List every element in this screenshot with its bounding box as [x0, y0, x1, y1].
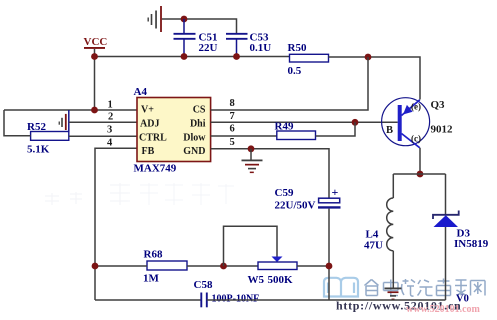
- wire: pin2 line: [69, 121, 137, 123]
- watermark hanzi row: [365, 279, 486, 297]
- svg-text:(c): (c): [411, 134, 421, 144]
- svg-text:CS: CS: [193, 105, 206, 116]
- svg-text:GND: GND: [183, 146, 205, 157]
- resistor R50: [288, 42, 329, 77]
- resistor R52: [27, 121, 69, 156]
- wire: R68 to W5: [187, 265, 258, 267]
- svg-text:22U/50V: 22U/50V: [275, 200, 316, 212]
- node: W5/C59/V0 junction: [326, 263, 333, 270]
- wire: bottom V0 line right segment: [207, 299, 446, 301]
- svg-text:5: 5: [230, 137, 235, 148]
- wire: wiper riser: [224, 226, 278, 266]
- wire: pin1 line: [4, 109, 137, 111]
- wire: bottom V0 line left segment: [95, 299, 201, 301]
- svg-text:Q3: Q3: [431, 99, 446, 111]
- svg-text:1M: 1M: [143, 273, 160, 285]
- node: junction dot ground/C51: [181, 16, 188, 23]
- svg-text:R49: R49: [275, 121, 294, 133]
- svg-text:7: 7: [230, 111, 235, 122]
- svg-text:9012: 9012: [431, 124, 454, 136]
- potentiometer W5: [248, 257, 298, 287]
- svg-text:MAX749: MAX749: [134, 163, 177, 175]
- wire: C51 top stem: [183, 19, 185, 34]
- svg-text:R68: R68: [144, 249, 163, 261]
- wire: L4-D3 top rail: [393, 173, 445, 175]
- wire: ground G1 to C53 top: [162, 19, 237, 34]
- svg-text:FB: FB: [142, 146, 155, 157]
- wire: pin5 line to C59: [211, 149, 329, 198]
- wire: C59 bottom stem: [328, 209, 330, 300]
- wire: R50 to Q3 emitter: [329, 57, 421, 100]
- wire: pin6 line: [211, 135, 277, 137]
- node: pin5/ground junction: [248, 145, 255, 152]
- wire: L4 bottom stem: [392, 251, 394, 288]
- node: C53/bus junction: [233, 53, 240, 60]
- faint background watermark (middle-left): [45, 183, 234, 205]
- diode D3 (schottky): [433, 211, 489, 251]
- wire: pin3 line: [69, 135, 137, 137]
- node: collector/L4/D3 junction: [417, 171, 424, 178]
- wire: R49 right to pin7 riser: [316, 122, 356, 136]
- svg-text:500K: 500K: [268, 274, 294, 286]
- svg-text:B: B: [386, 125, 393, 136]
- svg-text:47U: 47U: [364, 240, 383, 252]
- svg-text:0.1U: 0.1U: [250, 42, 272, 54]
- svg-text:R52: R52: [27, 121, 46, 133]
- inductor L4: [364, 198, 393, 252]
- transistor Q2: Q3 9012 PNP: [382, 98, 453, 148]
- svg-text:(e): (e): [411, 102, 421, 112]
- svg-text:+: +: [332, 185, 339, 199]
- node: R50/pin8 riser junction: [365, 54, 372, 61]
- svg-text:IN5819: IN5819: [454, 238, 489, 250]
- svg-text:V0: V0: [456, 294, 469, 305]
- svg-text:1: 1: [108, 100, 113, 111]
- wire: R52 right vertical: [68, 110, 70, 132]
- ground G4 (L4 bottom): [385, 288, 402, 301]
- capacitor C58: [194, 279, 260, 307]
- wire: FB bottom line left: [95, 265, 147, 267]
- svg-text:4: 4: [107, 138, 113, 149]
- svg-text:W5: W5: [248, 274, 265, 286]
- svg-text:5.1K: 5.1K: [27, 144, 50, 156]
- ground G1 (top, near C51): [148, 6, 162, 32]
- wire: pin8 line and riser to R50: [211, 57, 368, 110]
- svg-text:Dlow: Dlow: [183, 133, 206, 144]
- capacitor C53: [226, 32, 271, 55]
- wire: Q3 collector down: [419, 148, 421, 174]
- node: VCC/bus junction: [91, 53, 98, 60]
- node: C51/bus junction: [181, 53, 188, 60]
- resistor R49: [275, 121, 316, 140]
- op-amp U1: IC A4 MAX749: [134, 86, 211, 175]
- svg-text:Dhi: Dhi: [190, 119, 206, 130]
- svg-text:C59: C59: [275, 187, 294, 199]
- svg-text:ADJ: ADJ: [140, 119, 159, 130]
- wire: main top bus: [95, 56, 290, 58]
- wire: pin4 line and FB riser: [95, 148, 137, 300]
- svg-text:V+: V+: [141, 105, 154, 116]
- wire: L4 top stem: [392, 174, 394, 198]
- svg-text:A4: A4: [134, 86, 148, 98]
- svg-text:6: 6: [230, 124, 235, 135]
- svg-text:VCC: VCC: [84, 36, 108, 48]
- svg-text:22U: 22U: [199, 42, 218, 54]
- node: R68/wiper junction: [220, 263, 227, 270]
- svg-text:C58: C58: [194, 279, 213, 291]
- power VCC: [84, 36, 108, 110]
- svg-text:2: 2: [108, 112, 113, 123]
- svg-text:0.5: 0.5: [288, 65, 302, 77]
- wire: D3 top stem: [445, 174, 447, 214]
- wire: pin7 line to Q3 base: [211, 121, 398, 123]
- resistor R68: [143, 249, 187, 285]
- wire: W5 right to C59 bottom: [297, 265, 329, 267]
- svg-text:CTRL: CTRL: [139, 133, 167, 144]
- wire: R52 left loop: [4, 110, 31, 136]
- capacitor C59 (electrolytic): [275, 185, 341, 212]
- wire: C53 bottom stem: [236, 39, 238, 57]
- wire: C51 bottom stem: [183, 39, 185, 57]
- svg-text:8: 8: [230, 98, 235, 109]
- watermark book icon: [324, 278, 358, 297]
- svg-text:100P-10NF: 100P-10NF: [212, 294, 260, 305]
- wire: D3 bottom stem: [445, 227, 447, 300]
- svg-text:www.520101.com: www.520101.com: [406, 304, 481, 315]
- node: pin7/R49 junction: [352, 119, 359, 126]
- node: VCC/pin1 junction: [91, 107, 98, 114]
- node: FB/R68 junction: [92, 263, 99, 270]
- ground G2 (at R52): [59, 114, 67, 130]
- ground G3 (pin5 GND): [242, 149, 263, 173]
- svg-text:3: 3: [107, 125, 112, 136]
- capacitor C51: [174, 32, 218, 55]
- svg-text:R50: R50: [288, 42, 307, 54]
